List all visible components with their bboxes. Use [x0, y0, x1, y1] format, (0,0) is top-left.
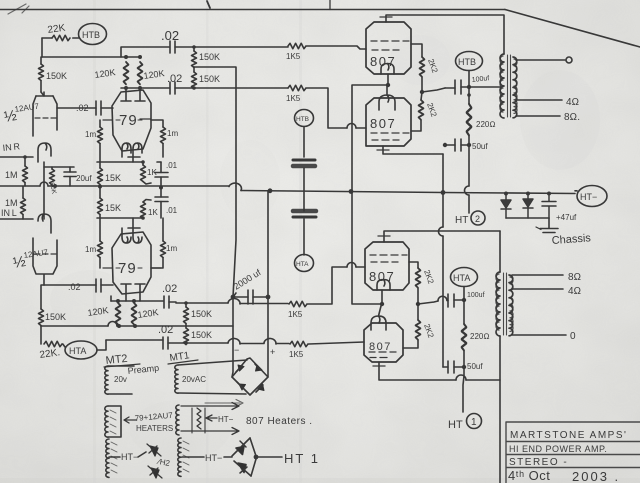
svg-text:1m: 1m: [85, 130, 96, 139]
bridge diode d: [258, 384, 264, 391]
wire screens to HT node lower: [418, 301, 438, 304]
arrow to heater text: [124, 417, 136, 423]
wire 22K right to HTB: [73, 37, 79, 39]
wire cathode rail upper 12AU7: [44, 166, 74, 168]
bridge diode a: [238, 365, 244, 371]
svg-text:20uf: 20uf: [76, 174, 92, 183]
resistor 150K (divider top, lower): [184, 307, 189, 324]
svg-text:100uf: 100uf: [467, 292, 485, 299]
resistor 220ohm (upper): [468, 87, 470, 104]
diode D1: [501, 194, 511, 219]
wire coupling D to grid rail: [186, 342, 289, 345]
svg-text:HT−: HT−: [121, 452, 138, 462]
svg-text:1K5: 1K5: [286, 52, 301, 61]
svg-text:.02: .02: [162, 283, 177, 295]
tube 807 no.1: [366, 22, 411, 74]
tube 807 no.2 (inverted): [366, 98, 411, 146]
wire HT- to diodes: [182, 456, 204, 458]
resistor 2K2 (screen B): [419, 100, 424, 120]
svg-text:8Ω.: 8Ω.: [564, 112, 580, 123]
svg-text:1K5: 1K5: [288, 310, 303, 319]
clamp bottom wire: [506, 217, 549, 219]
resistor 1K (cathode, upper): [141, 165, 146, 182]
wire HT2 stub: [468, 145, 470, 186]
svg-text:HTB: HTB: [82, 30, 100, 40]
svg-text:1m: 1m: [85, 245, 96, 254]
plate cap wire 807 no.1 to transformer: [386, 15, 504, 54]
svg-text:HT: HT: [455, 215, 468, 226]
svg-text:HTB: HTB: [296, 116, 309, 123]
wire 22K left to node: [42, 37, 52, 39]
svg-text:4Ω: 4Ω: [566, 97, 579, 108]
capacitor 20uf (cathode bypass, upper): [64, 172, 76, 177]
capacitor 100uf (lower): [448, 294, 454, 307]
cathode V1a: [38, 143, 51, 162]
wire plate V1a: [41, 92, 44, 96]
wire HT- from MT2: [109, 456, 120, 458]
svg-text:220Ω: 220Ω: [470, 332, 490, 341]
svg-text:0: 0: [570, 331, 576, 342]
cathode return wire lower: [352, 192, 382, 304]
cathodes 79 upper: [122, 143, 131, 157]
resistor 1K5 (grid stopper A): [288, 43, 306, 48]
svg-text:807: 807: [369, 269, 395, 284]
wire down to 22K: [40, 326, 42, 344]
cathode 807 no.1: [381, 64, 394, 75]
cathode rail 79 lower: [97, 217, 143, 219]
resistor 150K (12AU7 plate load, upper): [39, 64, 44, 81]
svg-text:50uf: 50uf: [472, 142, 488, 151]
capacitor (HTA decoupling, thick plates): [293, 209, 316, 214]
tube 79 (lower, inverted): [112, 232, 151, 294]
wire HT1 stub: [463, 367, 464, 412]
tap 4 ohm (upper): [516, 99, 562, 101]
supply label HTB (small circle): [295, 110, 314, 127]
plates 79 lower (bottom): [121, 284, 145, 301]
diode D4 (bias): [148, 466, 162, 478]
bus wire (long horizontal): [0, 186, 575, 194]
wire coupling C to grid rail: [176, 302, 288, 305]
tap 8 ohm (lower): [512, 274, 563, 276]
resistor 1K5 (grid stopper B): [288, 85, 306, 90]
wire hop over cathode drop: [347, 124, 356, 129]
svg-text:220Ω: 220Ω: [476, 120, 496, 129]
svg-text:15K: 15K: [105, 203, 121, 213]
resistor 2K2 (screen C): [416, 268, 421, 288]
wire divider mid to centre bus: [194, 67, 236, 186]
svg-text:807 Heaters .: 807 Heaters .: [246, 416, 313, 427]
svg-text:+: +: [270, 347, 275, 357]
capacitor 100uf (upper): [455, 80, 461, 94]
svg-text:1m: 1m: [166, 244, 177, 253]
MT2 winding HT: [106, 439, 109, 477]
wire coupling A to grid rail: [175, 46, 288, 48]
capacitor 50uf (upper): [455, 139, 461, 151]
wire plus rail (right vertical): [267, 191, 269, 377]
capacitor +47uf: [542, 194, 556, 219]
bridge rectifier B1: [232, 358, 268, 395]
resistor 220ohm (lower): [463, 300, 465, 324]
svg-text:4Ω: 4Ω: [568, 286, 581, 297]
diode D3 (bias): [147, 444, 161, 456]
plate cap wire 807 no.4 (bottom): [379, 362, 500, 380]
paper background smudges: [50, 35, 600, 460]
top border line: [0, 9, 505, 11]
svg-text:150K: 150K: [46, 71, 67, 81]
wire to HT 1: [256, 456, 282, 458]
svg-text:IN R: IN R: [2, 141, 21, 153]
MT1 winding 807 heaters: [176, 405, 179, 435]
wire node down: [41, 38, 43, 57]
svg-text:.02: .02: [68, 282, 81, 292]
diode D5 (HT rect): [232, 438, 250, 456]
svg-text:807: 807: [369, 341, 392, 353]
resistor 2K2 (screen D): [416, 320, 421, 340]
svg-text:1: 1: [471, 417, 477, 428]
tick mark top: [207, 1, 210, 8]
svg-text:HTB: HTB: [458, 57, 476, 67]
svg-text:20v: 20v: [114, 375, 127, 384]
paper edge diagonal top right: [505, 10, 640, 48]
cathode 807 no.2 (pokes above): [379, 95, 395, 110]
wire: [303, 127, 305, 158]
svg-text:+47uf: +47uf: [556, 213, 577, 222]
svg-text:HI END POWER AMP.: HI END POWER AMP.: [509, 444, 607, 454]
resistor 2K2 (screen A): [420, 57, 425, 77]
svg-text:.02: .02: [158, 324, 173, 336]
ground chassis: [540, 218, 558, 233]
bridge diode b: [256, 365, 263, 371]
svg-text:1K5: 1K5: [286, 94, 301, 103]
MT1 winding HT secondary: [178, 438, 181, 476]
transformer T1 output (upper) primary: [500, 54, 504, 118]
supply label HTA (small circle): [295, 255, 314, 272]
supply label HTB (oval, upper left): [79, 24, 107, 45]
supply label HTA (oval, output): [451, 268, 478, 287]
svg-text:150K: 150K: [191, 330, 212, 340]
svg-text:150K: 150K: [45, 312, 66, 322]
transformer T2 secondary: [509, 275, 513, 336]
svg-text:HTA: HTA: [296, 261, 309, 268]
MT2 winding heaters: [105, 406, 108, 437]
resistor 15K (cathode, upper): [98, 168, 103, 185]
wire to 807 no.3 grid: [308, 267, 365, 304]
svg-text:1M: 1M: [5, 170, 18, 180]
tube 79 (upper, dual triode): [112, 90, 151, 151]
MT2 winding 20v: [105, 366, 108, 394]
wire 120K bottoms / plate A rail: [121, 87, 169, 89]
resistor 150K (divider bottom, lower): [184, 328, 189, 345]
svg-text:2003 .: 2003 .: [572, 469, 620, 483]
tap 0 (upper): [516, 59, 565, 61]
svg-text:79: 79: [119, 112, 138, 129]
jog in minus rail: [233, 293, 236, 297]
cathode rail lower 12AU7: [43, 214, 45, 219]
svg-text:HT 1: HT 1: [284, 451, 320, 466]
svg-text:8Ω: 8Ω: [568, 272, 581, 283]
wire 79 lower plates rail: [111, 300, 163, 302]
wire to 807 no.2 grid: [307, 88, 366, 128]
supply label HTA (oval lower left): [65, 341, 97, 359]
resistor 150K (divider bottom, upper): [192, 72, 197, 89]
wire minus rail (left vertical): [232, 186, 236, 377]
capacitor 50uf (lower): [448, 361, 454, 373]
plate cap wire 807 no.2 (bottom): [383, 146, 443, 154]
small winding 5V: [197, 408, 201, 429]
wire plate A to coupling cap row: [121, 47, 169, 57]
arrow HT- mid: [206, 415, 217, 421]
plate cap wire 807 no.3: [384, 231, 500, 242]
supply label HT minus (oval): [577, 186, 607, 207]
tap 4 ohm (lower): [512, 288, 563, 290]
svg-text:50uf: 50uf: [467, 362, 483, 371]
svg-text:HT−: HT−: [205, 453, 222, 463]
cathode 807 no.4 (pokes above): [371, 316, 386, 330]
svg-text:1K5: 1K5: [289, 350, 304, 359]
wire to 807 no.1 grid: [307, 46, 366, 49]
svg-text:HTA: HTA: [69, 346, 86, 356]
wire 120K lower bottoms B+ rail: [41, 325, 233, 327]
resistor 150K (divider top, upper): [192, 51, 197, 68]
resistor 1K5 (grid stopper C): [289, 301, 307, 306]
node HT1: [250, 438, 256, 476]
svg-text:.01: .01: [166, 206, 178, 215]
tube 807 no.3: [365, 242, 409, 290]
svg-text:−: −: [234, 345, 239, 355]
svg-text:HEATERS: HEATERS: [136, 424, 173, 433]
resistor 1K5 (grid stopper D): [290, 341, 308, 346]
tap 8 ohm (upper): [516, 115, 560, 117]
transformer T1 secondary: [513, 57, 517, 118]
wire B+ rail to 120K tops: [42, 56, 140, 58]
cathode 807 no.3: [377, 280, 390, 291]
capacitor (HTB decoupling, thick plates): [293, 159, 315, 162]
heater arrows: [181, 403, 239, 410]
tube 807 no.4 (inverted): [364, 323, 403, 362]
transformer T2 output (lower) primary: [499, 231, 501, 272]
svg-text:HT: HT: [448, 419, 463, 431]
wire screens to HT node: [422, 88, 445, 92]
svg-text:HTA: HTA: [453, 273, 470, 283]
resistor 1M (input L grid leak): [21, 198, 26, 215]
plates 79 upper: [121, 88, 145, 101]
svg-text:IN L: IN L: [1, 208, 17, 218]
svg-text:79: 79: [118, 260, 137, 277]
svg-text:150K: 150K: [199, 74, 220, 84]
wire cathode rail 79 upper: [97, 161, 143, 163]
svg-text:20vAC: 20vAC: [182, 375, 206, 384]
grid dashes 79 upper: [103, 119, 151, 120]
resistor 15K (cathode, lower): [98, 198, 103, 215]
resistor 90K (cathode bias, upper): [50, 169, 55, 185]
svg-text:150K: 150K: [191, 309, 212, 319]
cathodes 79 lower (top): [122, 228, 131, 243]
wire HT node to transformer: [469, 86, 500, 88]
svg-text:1M: 1M: [5, 198, 18, 208]
tick mark top 2: [329, 0, 331, 10]
cathode pair return wire: [352, 85, 388, 192]
bridge diode c: [239, 384, 246, 390]
svg-text:4ᵗʰ Oct: 4ᵗʰ Oct: [508, 468, 550, 483]
svg-text:HT−: HT−: [218, 415, 234, 424]
MT1 winding 20vAC: [175, 365, 178, 393]
corner pen scribble: [8, 4, 29, 14]
svg-text:807: 807: [370, 54, 396, 69]
svg-text:.01: .01: [166, 161, 178, 170]
svg-text:15K: 15K: [105, 173, 121, 183]
svg-text:MARTSTONE AMPS': MARTSTONE AMPS': [510, 430, 627, 441]
svg-text:807: 807: [370, 116, 396, 131]
resistor 150K (12AU7 lower plate load): [39, 309, 44, 326]
diode D2: [523, 194, 533, 219]
svg-text:2: 2: [475, 214, 480, 224]
cathode lead / inter-cathode line V1: [43, 162, 45, 214]
wire to 807 no.4 grid: [309, 342, 364, 344]
resistor 1K (cathode, lower): [141, 202, 146, 219]
diode D6 (HT rect): [234, 461, 251, 476]
node dots on B+ rail: [124, 55, 142, 59]
svg-text:1m: 1m: [167, 129, 178, 138]
supply label HTB (oval, output): [456, 52, 483, 71]
svg-text:150K: 150K: [199, 52, 220, 62]
tap 0 (lower): [512, 334, 566, 336]
svg-text:HT−: HT−: [580, 192, 597, 202]
resistor 22K (lower B+ feed): [44, 341, 62, 346]
grid dashes 79 lower: [103, 267, 161, 269]
svg-text:STEREO -: STEREO -: [509, 457, 568, 468]
svg-text:1K: 1K: [148, 208, 158, 217]
vertical from cathode bus: [442, 154, 444, 367]
